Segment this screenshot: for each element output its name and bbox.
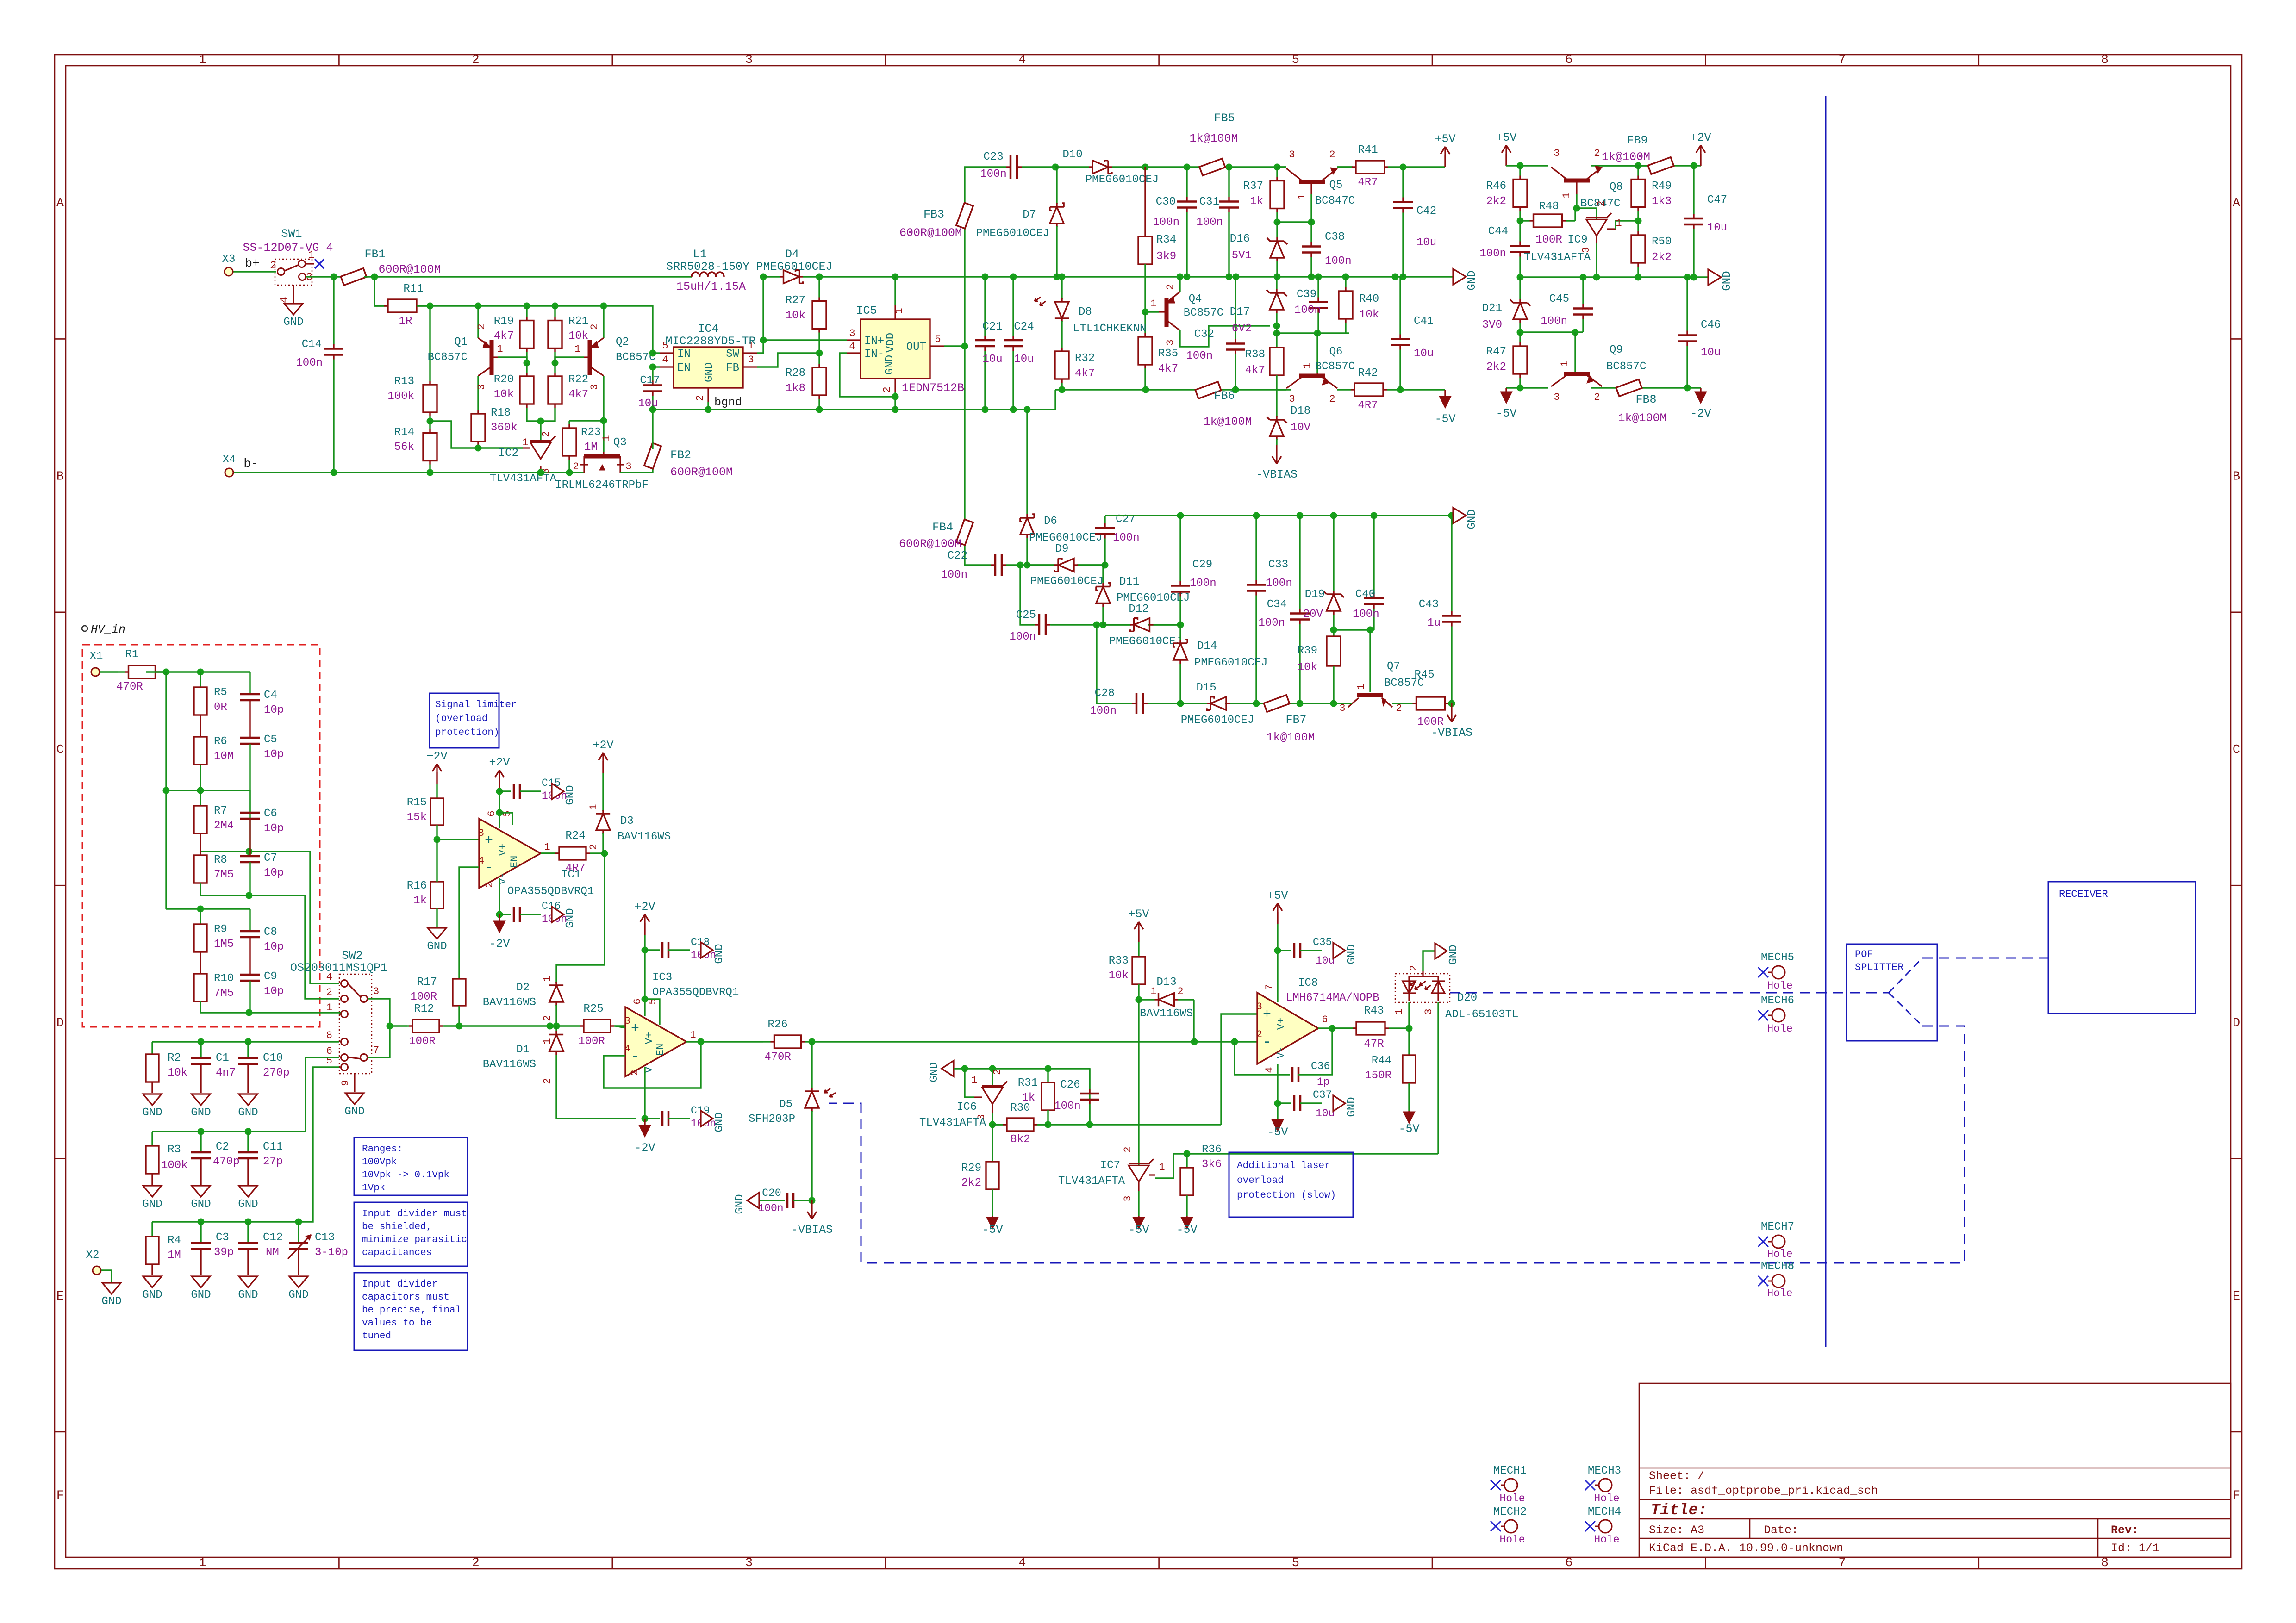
wire FB2 to bgnd rail	[652, 410, 653, 449]
svg-text:10k: 10k	[1109, 970, 1129, 982]
svg-text:100n: 100n	[1054, 1100, 1081, 1113]
svg-text:Date:: Date:	[1764, 1524, 1798, 1537]
svg-text:1: 1	[326, 1002, 332, 1014]
ground symbol below SW1	[284, 304, 303, 315]
svg-text:FB9: FB9	[1627, 134, 1647, 147]
power -VBIAS arrow below D18	[1272, 445, 1281, 464]
zener D19 20V	[1333, 516, 1334, 591]
wire FB1 to L1	[364, 276, 692, 277]
junction Q8 base IC9 cathode	[1573, 205, 1580, 212]
capacitor C29 100n	[1179, 516, 1181, 581]
diode D10 PMEG6010CEJ	[1055, 166, 1089, 168]
junction dots 718 node	[1517, 329, 1524, 336]
svg-text:4k7: 4k7	[494, 330, 514, 342]
wire rowB to rowC	[1097, 625, 1129, 703]
svg-text:C9: C9	[264, 970, 277, 983]
wire IC1 V+ to +2V	[499, 778, 500, 790]
svg-text:GND: GND	[703, 362, 716, 382]
wire lower GND rail	[1105, 515, 1453, 516]
svg-text:C43: C43	[1419, 598, 1439, 611]
junction IN- GND tie	[892, 393, 899, 400]
svg-text:GND: GND	[1466, 509, 1479, 529]
svg-text:C5: C5	[264, 734, 277, 746]
junction D10 anode	[1052, 164, 1059, 171]
capacitor C19 100n	[645, 1105, 716, 1130]
svg-text:D7: D7	[1023, 209, 1036, 221]
capacitor C22 100n series	[977, 564, 991, 566]
svg-text:D5: D5	[779, 1098, 792, 1111]
svg-text:100R: 100R	[578, 1035, 605, 1048]
svg-text:+5V: +5V	[1435, 132, 1455, 146]
svg-text:R24: R24	[565, 830, 585, 842]
svg-text:1k@100M: 1k@100M	[1618, 411, 1666, 425]
svg-text:Hole: Hole	[1594, 1492, 1619, 1505]
svg-text:100n: 100n	[1009, 631, 1036, 643]
wire IC1 V- down	[499, 878, 500, 914]
wire SW2 common to R12	[368, 999, 390, 1057]
svg-text:10k: 10k	[1359, 309, 1379, 321]
power +5V above R33	[1138, 930, 1139, 942]
svg-text:3: 3	[478, 827, 484, 839]
svg-text:100n: 100n	[296, 357, 323, 369]
svg-text:R23: R23	[581, 426, 601, 439]
wire D10 rail to FB5 and Q5	[1145, 166, 1203, 168]
wire IC5 IN- to GND pin	[840, 353, 895, 397]
svg-text:R43: R43	[1364, 1005, 1384, 1017]
svg-text:3: 3	[1554, 148, 1560, 159]
svg-text:GND: GND	[564, 785, 577, 805]
svg-text:6: 6	[1565, 53, 1572, 67]
svg-text:C11: C11	[263, 1141, 283, 1153]
junction R43 right	[1406, 1025, 1413, 1032]
svg-text:-5V: -5V	[982, 1223, 1003, 1237]
svg-text:PMEG6010CEJ: PMEG6010CEJ	[1109, 635, 1182, 648]
svg-text:1EDN7512B: 1EDN7512B	[902, 381, 964, 395]
note box ranges	[354, 1138, 468, 1195]
power -5V below R36	[1186, 1216, 1187, 1217]
svg-text:LMH6714MA/NOPB: LMH6714MA/NOPB	[1286, 992, 1379, 1004]
svg-text:4R7: 4R7	[1358, 399, 1378, 412]
svg-text:IN+: IN+	[864, 335, 884, 348]
svg-text:BAV116WS: BAV116WS	[618, 831, 671, 843]
wire R11 rail to IC4	[417, 306, 653, 353]
svg-text:3: 3	[625, 461, 631, 473]
wire R48 to Q8 base	[1575, 208, 1577, 221]
svg-text:6: 6	[1322, 1014, 1328, 1026]
junction IC8 out	[1329, 1025, 1336, 1032]
resistor R48 100R	[1520, 220, 1530, 221]
svg-text:600R@100M: 600R@100M	[670, 466, 733, 479]
svg-text:PMEG6010CEJ: PMEG6010CEJ	[1117, 592, 1190, 604]
wire Q4 collector to D17 node	[1180, 326, 1270, 347]
wire right block bottom rail	[1506, 387, 1548, 388]
svg-text:Hole: Hole	[1499, 1492, 1525, 1505]
svg-text:TLV431AFTA: TLV431AFTA	[1058, 1175, 1125, 1188]
svg-text:Rev:: Rev:	[2111, 1524, 2139, 1537]
svg-text:FB7: FB7	[1285, 713, 1306, 727]
svg-text:C33: C33	[1268, 559, 1288, 571]
svg-text:D18: D18	[1291, 405, 1310, 417]
svg-text:1p: 1p	[1317, 1076, 1330, 1088]
zener D16 5V1	[1276, 222, 1278, 237]
junction Q4 base	[1142, 309, 1149, 316]
resistor R41 4R7	[1337, 166, 1352, 168]
wire D20 pin3 return	[1437, 1002, 1439, 1154]
diode D7 PMEG6010CEJ	[1056, 203, 1057, 204]
svg-text:2: 2	[694, 395, 706, 401]
svg-text:1k@100M: 1k@100M	[1266, 731, 1315, 744]
resistor R9 1M5	[194, 909, 234, 974]
svg-text:9: 9	[340, 1080, 351, 1086]
resistor R20 10k	[526, 363, 527, 373]
svg-text:3: 3	[1289, 149, 1295, 161]
note box signal limiter	[430, 693, 517, 748]
svg-text:D13: D13	[1156, 976, 1176, 989]
svg-text:capacitors must: capacitors must	[362, 1292, 449, 1303]
wire D21 C45 node	[1520, 331, 1583, 333]
svg-text:BAV116WS: BAV116WS	[483, 996, 536, 1009]
svg-text:R29: R29	[961, 1162, 981, 1175]
wire R30 row	[992, 1124, 1221, 1125]
svg-text:2: 2	[1594, 392, 1600, 403]
svg-text:C23: C23	[983, 151, 1003, 163]
svg-text:-VBIAS: -VBIAS	[1431, 726, 1472, 740]
svg-text:1k@100M: 1k@100M	[1189, 132, 1238, 145]
svg-text:39p: 39p	[214, 1246, 234, 1259]
junction C37 tap	[1274, 1100, 1281, 1107]
svg-text:+5V: +5V	[1496, 131, 1516, 144]
junction Q2 base node	[552, 360, 559, 367]
svg-text:BC857C: BC857C	[1184, 307, 1223, 319]
svg-text:3: 3	[849, 328, 855, 339]
svg-text:R38: R38	[1245, 348, 1265, 361]
svg-text:6: 6	[1565, 1556, 1572, 1570]
svg-text:270p: 270p	[263, 1067, 290, 1079]
svg-text:SFH203P: SFH203P	[749, 1113, 795, 1126]
resistor R25 100R	[569, 1025, 580, 1026]
junction D8 top	[1059, 274, 1066, 280]
svg-text:IN-: IN-	[864, 348, 884, 361]
svg-text:D16: D16	[1230, 233, 1250, 245]
diode D11 PMEG6010CEJ	[1102, 565, 1104, 583]
svg-text:R10: R10	[214, 972, 234, 985]
svg-text:C: C	[56, 743, 64, 757]
wire R11 tap	[374, 277, 388, 306]
svg-text:+: +	[631, 1021, 639, 1037]
svg-text:2: 2	[540, 431, 552, 437]
svg-text:5: 5	[501, 810, 513, 816]
svg-text:1u: 1u	[1427, 617, 1441, 629]
wire IC3 EN jog	[645, 999, 660, 1025]
wire D3 node to D2	[556, 853, 605, 983]
mount hole MECH7	[1758, 1221, 1794, 1260]
svg-text:10p: 10p	[264, 985, 284, 998]
svg-text:IN: IN	[677, 348, 691, 361]
svg-text:3: 3	[1122, 1195, 1134, 1201]
svg-text:4k7: 4k7	[1075, 367, 1095, 380]
svg-text:3-10p: 3-10p	[315, 1246, 348, 1259]
capacitor C33 100n	[1255, 516, 1257, 580]
svg-text:7M5: 7M5	[214, 869, 234, 881]
svg-text:Q4: Q4	[1189, 293, 1202, 305]
svg-text:6V2: 6V2	[1232, 323, 1252, 335]
svg-text:1k: 1k	[1250, 195, 1263, 208]
svg-text:-: -	[630, 1048, 640, 1066]
dashed return path to photodiode	[829, 1026, 1965, 1263]
diode D2 BAV116WS	[483, 976, 563, 1026]
capacitor C9 10p	[240, 970, 284, 1013]
svg-text:Q1: Q1	[454, 336, 468, 348]
svg-text:C37: C37	[1313, 1089, 1332, 1101]
svg-text:FB5: FB5	[1214, 112, 1235, 125]
resistor R38 4k7	[1245, 333, 1284, 417]
connector X2	[93, 1266, 101, 1275]
svg-text:PMEG6010CEJ: PMEG6010CEJ	[1030, 575, 1104, 588]
svg-text:R33: R33	[1109, 955, 1129, 967]
svg-text:20V: 20V	[1303, 608, 1323, 621]
svg-text:100k: 100k	[161, 1159, 188, 1172]
wire IC3 plus	[615, 1026, 625, 1028]
svg-text:D17: D17	[1230, 306, 1250, 318]
svg-text:EN: EN	[509, 856, 520, 868]
svg-text:10p: 10p	[264, 822, 284, 835]
svg-text:600R@100M: 600R@100M	[378, 263, 441, 276]
junction SW rail	[760, 274, 767, 280]
svg-text:Q7: Q7	[1387, 660, 1400, 673]
svg-text:-: -	[484, 859, 493, 877]
resistor R18 360k	[477, 407, 479, 410]
resistor R3 100k	[146, 1132, 188, 1185]
svg-text:3: 3	[1165, 339, 1176, 345]
wire IC3 output	[686, 1041, 763, 1042]
junction dots right top rail	[1517, 162, 1524, 169]
svg-text:D21: D21	[1482, 302, 1502, 315]
wire D17 C39 R40 node	[1277, 326, 1349, 333]
svg-text:100k: 100k	[387, 390, 414, 403]
svg-text:Title:: Title:	[1651, 1502, 1707, 1519]
svg-text:1: 1	[542, 1038, 553, 1044]
ground flag IC6	[942, 1061, 954, 1076]
wire divider left rail	[165, 672, 167, 909]
ferrite bead FB9	[1648, 157, 1674, 174]
power -5V below R29	[992, 1216, 993, 1217]
resistor R14 56k	[429, 421, 430, 429]
svg-text:100n: 100n	[1113, 532, 1140, 544]
svg-text:GND: GND	[142, 1289, 162, 1301]
shunt regulator IC9 TLV431AFTA	[1524, 200, 1638, 277]
connector X3	[225, 267, 233, 276]
power -2V below IC1	[499, 914, 500, 921]
mount hole MECH3	[1585, 1465, 1621, 1505]
svg-text:2: 2	[573, 461, 579, 473]
svg-text:D6: D6	[1044, 515, 1057, 528]
svg-text:X4: X4	[223, 454, 236, 466]
svg-text:10p: 10p	[264, 867, 284, 879]
zener D18 10V	[1267, 405, 1311, 445]
svg-text:E: E	[56, 1290, 64, 1304]
capacitor C16 100n	[499, 900, 567, 925]
svg-text:IC5: IC5	[856, 304, 877, 317]
junction C7 bottom	[246, 892, 253, 899]
svg-text:C20: C20	[762, 1187, 781, 1199]
ground below R16	[428, 928, 446, 939]
resistor R19 4k7	[526, 306, 527, 317]
svg-text:R42: R42	[1358, 367, 1378, 379]
svg-text:Q8: Q8	[1610, 181, 1623, 193]
svg-text:C2: C2	[216, 1141, 229, 1153]
svg-text:C10: C10	[263, 1052, 283, 1064]
svg-text:3: 3	[373, 986, 379, 997]
capacitor C39 100n	[1317, 277, 1319, 298]
power -5V below IC8	[1277, 1119, 1278, 1120]
svg-text:1: 1	[574, 343, 580, 355]
svg-text:3: 3	[589, 384, 600, 390]
svg-text:6: 6	[486, 810, 498, 816]
svg-text:C42: C42	[1416, 205, 1436, 218]
note box additional laser overload	[1229, 1152, 1353, 1217]
svg-text:C34: C34	[1267, 598, 1287, 611]
svg-text:Q5: Q5	[1329, 179, 1343, 192]
svg-text:R46: R46	[1486, 180, 1506, 193]
wire Q9 base	[1574, 332, 1576, 373]
power -VBIAS arrow at R45	[1447, 703, 1456, 722]
ground below X2	[102, 1283, 121, 1294]
svg-text:R3: R3	[168, 1144, 181, 1156]
svg-text:X3: X3	[222, 253, 236, 266]
svg-text:2: 2	[1165, 284, 1176, 290]
junction dots pin5 rail	[198, 1219, 205, 1225]
svg-text:470p: 470p	[213, 1156, 240, 1168]
svg-text:10u: 10u	[1414, 348, 1434, 360]
svg-text:GND: GND	[344, 1106, 364, 1118]
zener D17 6V2	[1276, 277, 1277, 289]
GND arrow right block	[1708, 269, 1721, 285]
wire D20 pin2 to ground flag	[1423, 951, 1435, 971]
svg-text:C4: C4	[264, 689, 277, 702]
svg-text:D20: D20	[1457, 992, 1477, 1004]
svg-text:4k7: 4k7	[1158, 363, 1178, 375]
wire group3 top	[166, 908, 250, 909]
junction at C14 top	[331, 274, 337, 280]
svg-text:1: 1	[544, 841, 550, 853]
svg-text:C30: C30	[1156, 196, 1176, 208]
svg-text:SW1: SW1	[281, 227, 302, 241]
junction below R13	[427, 418, 434, 425]
svg-text:R36: R36	[1202, 1144, 1222, 1156]
svg-text:D11: D11	[1119, 576, 1139, 588]
wire b- bus	[233, 472, 584, 473]
wire IC8 V- down	[1277, 1064, 1278, 1119]
transistor Q5 BC847C	[1278, 149, 1355, 222]
svg-text:protection (slow): protection (slow)	[1237, 1190, 1336, 1201]
svg-text:1k3: 1k3	[1652, 195, 1672, 208]
svg-text:R41: R41	[1358, 144, 1378, 156]
svg-text:D3: D3	[620, 815, 634, 827]
svg-text:10k: 10k	[786, 310, 805, 322]
svg-text:2: 2	[1329, 393, 1335, 405]
svg-text:File: asdf_optprobe_pri.kicad_: File: asdf_optprobe_pri.kicad_sch	[1649, 1484, 1878, 1498]
svg-text:bgnd: bgnd	[714, 396, 742, 409]
resistor R47 2k2	[1519, 332, 1521, 342]
svg-text:-5V: -5V	[1398, 1122, 1419, 1136]
junction R36 top	[1184, 1150, 1191, 1157]
svg-text:C: C	[2233, 743, 2240, 757]
svg-text:V-: V-	[1275, 1046, 1287, 1058]
svg-text:5V1: 5V1	[1232, 249, 1252, 262]
svg-text:C21: C21	[982, 321, 1002, 333]
svg-text:C39: C39	[1297, 288, 1316, 301]
svg-text:-5V: -5V	[1176, 1223, 1197, 1237]
svg-text:2: 2	[1329, 149, 1335, 161]
svg-text:D15: D15	[1196, 682, 1216, 694]
svg-text:D19: D19	[1305, 588, 1325, 601]
no-connect cross on SW1 pin 1	[315, 259, 324, 268]
wire IC6 ref to IC8 plus	[1221, 1014, 1257, 1125]
svg-text:C7: C7	[264, 852, 277, 864]
svg-text:5: 5	[1292, 53, 1299, 67]
capacitor C25 100n series	[1034, 624, 1035, 625]
svg-text:-2V: -2V	[1690, 407, 1711, 420]
junction dots pin6 rail	[198, 1128, 205, 1135]
svg-text:R37: R37	[1243, 180, 1263, 193]
svg-text:tuned: tuned	[362, 1331, 391, 1342]
junction R9 top	[197, 906, 204, 913]
capacitor C12 NM	[238, 1222, 283, 1275]
junction D17 anode	[1273, 323, 1280, 330]
svg-text:100Vpk: 100Vpk	[362, 1157, 397, 1168]
svg-text:100n: 100n	[1541, 315, 1567, 328]
transistor Q9 BC857C	[1551, 344, 1646, 403]
capacitor C36 1p	[1292, 1028, 1332, 1088]
junction Q3 gate node	[600, 417, 607, 424]
svg-text:1: 1	[1559, 361, 1571, 367]
junction dots lower GND rail	[1177, 512, 1184, 519]
junction dots on R11 rail	[427, 303, 434, 310]
svg-text:GND: GND	[564, 908, 577, 928]
svg-text:10u: 10u	[1014, 353, 1034, 366]
svg-text:R47: R47	[1486, 346, 1506, 358]
svg-text:D: D	[2233, 1016, 2240, 1030]
laser diode D20 ADL-65103TL	[1393, 965, 1518, 1021]
svg-text:MECH2: MECH2	[1493, 1506, 1527, 1518]
svg-text:1: 1	[542, 976, 553, 982]
junction R33 D13	[1136, 996, 1142, 1003]
wire group2 bottom to SW2 pin2	[200, 895, 339, 999]
resistor R43 47R	[1332, 1027, 1353, 1029]
resistor R35 4k7	[1144, 312, 1146, 333]
wire SW node	[757, 277, 763, 353]
svg-text:47R: 47R	[1364, 1038, 1384, 1051]
resistor R37 1k	[1276, 167, 1278, 177]
power -5V below IC7	[1138, 1216, 1139, 1217]
svg-text:R20: R20	[494, 373, 514, 386]
svg-text:A: A	[56, 197, 64, 211]
svg-text:B: B	[2233, 470, 2240, 484]
capacitor C46 10u	[1686, 277, 1688, 331]
svg-text:-5V: -5V	[1128, 1223, 1149, 1237]
svg-text:V+: V+	[497, 844, 509, 856]
capacitor C17 10u	[652, 367, 653, 381]
svg-text:1: 1	[971, 1075, 977, 1086]
wire IC3 feedback	[604, 1042, 701, 1088]
svg-text:100n: 100n	[980, 168, 1007, 180]
junction C20 D5	[809, 1197, 816, 1204]
svg-text:MECH4: MECH4	[1588, 1506, 1621, 1518]
svg-text:100n: 100n	[1353, 608, 1379, 621]
svg-text:C38: C38	[1325, 231, 1345, 243]
grounds below R2 C1 C10	[143, 1094, 162, 1105]
junction R18 bottom	[475, 445, 482, 452]
